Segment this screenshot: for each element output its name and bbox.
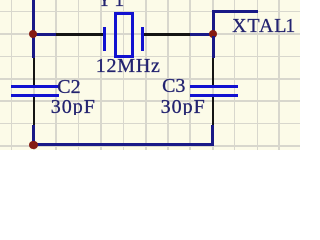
label 30pF (C3) <box>161 97 206 115</box>
crystal Y1 left pin <box>56 33 104 35</box>
crystal Y1 body rectangle <box>114 12 134 58</box>
crystal Y1 right plate <box>141 27 144 51</box>
node A junction dot <box>29 30 37 38</box>
capacitor C2 bottom plate <box>11 94 59 97</box>
wire: node C down to C3 <box>212 36 215 58</box>
label 30pF (C2) <box>51 97 96 115</box>
wire: XTAL1 horizontal stub <box>212 10 259 13</box>
wire: left vertical from top edge to node A <box>32 0 35 58</box>
capacitor C2 top pin <box>33 58 35 86</box>
wire: node A to crystal left pin <box>33 33 56 36</box>
wire: node C up to XTAL1 stub <box>212 10 215 35</box>
label Y1 (cut off at top) <box>97 0 126 10</box>
node C junction dot <box>209 30 217 38</box>
wire: C3 bottom to bottom wire corner <box>211 125 214 147</box>
crystal Y1 left plate <box>103 27 106 51</box>
capacitor C3 top pin <box>212 58 214 86</box>
label 12MHz <box>96 56 161 76</box>
net label XTAL1 <box>232 16 287 36</box>
capacitor C2 top plate <box>11 85 59 88</box>
wire: crystal right pin to node C <box>190 33 214 36</box>
node B junction dot <box>29 141 37 149</box>
crystal Y1 right pin <box>144 33 190 35</box>
capacitor C3 top plate <box>190 85 238 88</box>
capacitor C3 bottom pin <box>212 97 214 125</box>
label C3 <box>162 76 185 96</box>
capacitor C3 bottom plate <box>190 94 238 97</box>
capacitor C2 bottom pin <box>33 97 35 125</box>
label C2 <box>57 77 80 97</box>
wire: C2 bottom to node B <box>32 125 35 146</box>
wire: bottom horizontal <box>32 143 214 146</box>
